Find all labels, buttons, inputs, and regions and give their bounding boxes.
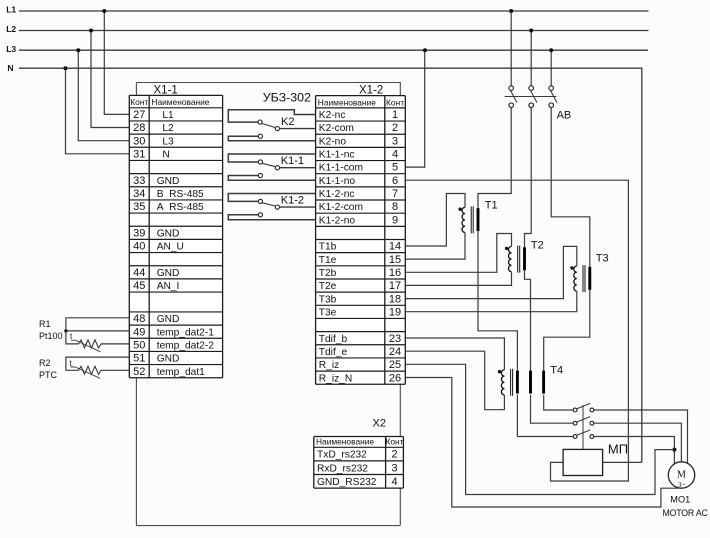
wire X1-1 pin48 to R1 node: [66, 318, 130, 331]
wire L3 rail to breaker pole: [550, 50, 552, 86]
resistor R1 Pt100 element: [79, 340, 102, 348]
svg-text:2: 2: [392, 122, 398, 134]
wire rail L1: [19, 10, 649, 12]
svg-text:Наименование: Наименование: [151, 97, 209, 107]
svg-text:23: 23: [389, 333, 401, 345]
svg-text:GND: GND: [157, 314, 180, 325]
contactor MP contact 2 left: [573, 421, 577, 425]
transformer T4 primary bar 1: [516, 371, 519, 394]
svg-text:39: 39: [133, 227, 145, 239]
svg-text:MOTOR AC: MOTOR AC: [663, 508, 709, 518]
wire L3 T3 bar to T4 bar3: [544, 290, 590, 371]
svg-text:L2: L2: [6, 24, 16, 34]
svg-text:3: 3: [391, 462, 397, 474]
transformer T2 polarity dot: [505, 247, 508, 250]
breaker AB pole L2 bottom: [529, 103, 534, 108]
svg-text:51: 51: [133, 353, 145, 365]
breaker AB pole L3 bottom: [549, 103, 554, 108]
wire L1 tap to X1-1 pin 27: [104, 11, 130, 114]
table X2 backing: [314, 437, 404, 489]
svg-text:34: 34: [133, 188, 145, 200]
wire MP contact3 to motor: [594, 437, 675, 465]
svg-text:K1-1: K1-1: [281, 155, 304, 167]
svg-text:T2e: T2e: [319, 281, 337, 292]
svg-text:GND_RS232: GND_RS232: [317, 477, 377, 488]
svg-text:18: 18: [389, 293, 401, 305]
wire K1-2 com to pin 8: [279, 206, 315, 208]
wire rail N down right side to MP coil: [19, 68, 642, 462]
svg-text:31: 31: [133, 148, 145, 160]
contactor MP contact 2 right: [590, 421, 594, 425]
contact K1-2 moving pivot: [258, 199, 262, 203]
wire T2e pin17 to T2 winding end: [405, 272, 511, 286]
svg-text:30: 30: [133, 135, 145, 147]
wire L1 breaker to T1 bar: [478, 108, 511, 209]
transformer T4 primary bar 3: [542, 371, 545, 394]
svg-text:temp_dat2-2: temp_dat2-2: [157, 340, 215, 351]
contact K1-1 no contact: [258, 173, 262, 177]
svg-text:28: 28: [133, 122, 145, 134]
wire rail L2: [19, 30, 649, 32]
svg-text:Наименование: Наименование: [316, 437, 374, 447]
svg-text:N: N: [7, 63, 13, 73]
transformer T3 winding: [574, 266, 577, 291]
wire pin6 K1-1-no to MP coil left: [405, 180, 628, 481]
wire T3e pin19 to T3 winding end: [405, 291, 577, 312]
svg-text:N: N: [157, 149, 170, 160]
wire L1 T4 bar1 to MP contact 3: [517, 395, 573, 437]
svg-text:Наименование: Наименование: [318, 97, 376, 107]
svg-text:7: 7: [392, 188, 398, 200]
breaker AB pole L2 blade: [531, 91, 537, 103]
svg-text:44: 44: [133, 267, 145, 279]
svg-text:Tdif_e: Tdif_e: [319, 347, 348, 358]
contact K2 nc lead: [228, 110, 315, 122]
svg-text:K1-1-com: K1-1-com: [319, 163, 363, 174]
wire L2 T4 bar2 to MP contact 2: [531, 395, 574, 423]
svg-text:K2-com: K2-com: [319, 123, 354, 134]
transformer T2 winding: [508, 247, 511, 272]
transformer T3 polarity dot: [570, 266, 573, 269]
breaker AB pole L3 blade: [551, 91, 557, 103]
svg-text:R_iz_N: R_iz_N: [319, 373, 352, 384]
node L2 tap junction: [89, 29, 93, 33]
node N tap junction: [64, 66, 68, 70]
transformer T4 winding: [501, 370, 504, 395]
contactor MP contact 1 arm: [577, 403, 591, 409]
resistor R2 PTC element: [79, 366, 102, 374]
svg-text:T2b: T2b: [319, 268, 337, 279]
svg-text:temp_dat1: temp_dat1: [157, 367, 205, 378]
motor MO1 circle: [668, 462, 694, 488]
svg-text:МП: МП: [608, 442, 628, 457]
svg-text:X1-2: X1-2: [359, 85, 383, 97]
svg-text:2: 2: [391, 449, 397, 461]
wire MP coil right to N: [603, 461, 642, 463]
contact K1-1 com pivot: [275, 166, 279, 170]
svg-text:6: 6: [392, 175, 398, 187]
contactor MP coil: [563, 449, 603, 475]
svg-text:temp_dat2-1: temp_dat2-1: [157, 327, 215, 338]
transformer T1 core: [471, 206, 473, 233]
svg-text:26: 26: [389, 372, 401, 384]
svg-text:L3: L3: [157, 136, 174, 147]
breaker AB pole L3 top: [549, 86, 554, 91]
svg-text:L1: L1: [157, 110, 174, 121]
wire L2 rail to breaker pole: [530, 31, 532, 86]
contact K2 arm: [262, 123, 276, 127]
svg-text:X2: X2: [373, 418, 386, 430]
svg-text:K1-2-com: K1-2-com: [319, 202, 363, 213]
transformer T2 core: [518, 246, 520, 273]
contactor MP linkage: [582, 405, 584, 449]
svg-text:PTC: PTC: [39, 370, 58, 380]
svg-text:8: 8: [392, 201, 398, 213]
contactor MP contact 1 right: [590, 408, 594, 412]
node L1 tap junction: [102, 9, 106, 13]
thermal strike R1: [71, 340, 101, 352]
device outline box UBZ-302: [136, 83, 400, 526]
svg-text:T3b: T3b: [319, 294, 337, 305]
svg-text:AN_U: AN_U: [157, 242, 184, 253]
wire MP contact1 to motor: [594, 410, 688, 463]
node motor phase tap: [672, 448, 676, 452]
table X1-1 backing: [129, 95, 222, 377]
svg-text:1: 1: [392, 109, 398, 121]
wire T2b pin16 to T2 winding start: [405, 234, 511, 273]
svg-text:4: 4: [391, 476, 397, 488]
wire R1 to X1-1 pin 50: [101, 343, 130, 345]
node L3 breaker tap: [549, 48, 553, 52]
svg-text:5: 5: [392, 162, 398, 174]
svg-text:4: 4: [392, 149, 398, 161]
svg-text:GND: GND: [157, 228, 180, 239]
svg-text:K1-2-nc: K1-2-nc: [319, 189, 355, 200]
contact K1-2 arm: [262, 203, 276, 206]
contact K1-2 com pivot: [275, 205, 279, 209]
wire K1-1 com to pin 5: [279, 167, 315, 169]
breaker AB crossbar: [505, 96, 557, 98]
svg-text:L2: L2: [157, 123, 174, 134]
table X1-2 backing: [316, 96, 406, 385]
wire X1-1 pin49 to R1 node: [66, 330, 130, 332]
wire T3b pin18 to T3 winding start: [405, 246, 577, 298]
svg-text:25: 25: [389, 359, 401, 371]
contact K1-2 no contact: [258, 213, 262, 217]
wire MP contact2 to motor: [594, 423, 682, 462]
transformer T4 polarity dot: [498, 370, 501, 373]
svg-text:17: 17: [389, 280, 401, 292]
wire L1 rail to breaker pole: [510, 11, 512, 86]
svg-text:GND: GND: [157, 354, 180, 365]
contactor MP contact 3 right: [590, 435, 594, 439]
node R1 junction: [64, 329, 67, 332]
svg-text:K1-2: K1-2: [281, 194, 304, 206]
svg-text:K2-nc: K2-nc: [319, 110, 346, 121]
svg-text:50: 50: [133, 339, 145, 351]
breaker AB pole L1 blade: [511, 91, 517, 103]
svg-text:3: 3: [392, 135, 398, 147]
transformer T4 primary bar 2: [529, 371, 532, 394]
svg-text:AN_I: AN_I: [157, 281, 180, 292]
contact K2 com pivot: [275, 127, 279, 131]
svg-text:t: t: [70, 332, 73, 341]
contactor MP contact 3 arm: [577, 430, 591, 436]
svg-text:27: 27: [133, 109, 145, 121]
svg-text:B RS-485: B RS-485: [157, 189, 204, 200]
svg-text:35: 35: [133, 201, 145, 213]
svg-text:9: 9: [392, 214, 398, 226]
wire L3 tap to X1-1 pin 30: [78, 50, 130, 141]
svg-text:УБЗ-302: УБЗ-302: [263, 91, 311, 105]
thermal strike R2: [71, 367, 101, 378]
contact K2 moving pivot: [258, 120, 262, 124]
svg-text:3~: 3~: [678, 480, 686, 489]
wire R1 node down to sensor: [66, 331, 79, 344]
svg-text:K1-2-no: K1-2-no: [319, 215, 356, 226]
wire K2 com to pin 2: [279, 128, 315, 130]
node L1 breaker tap: [509, 9, 513, 13]
svg-text:X1-1: X1-1: [154, 85, 178, 97]
node L3 K1-1-com junction: [423, 48, 427, 52]
contact K1-1 no lead: [228, 176, 315, 181]
svg-text:T2: T2: [531, 240, 544, 252]
svg-text:Конт: Конт: [386, 437, 404, 447]
svg-text:R1: R1: [39, 319, 51, 329]
transformer T3 core: [583, 265, 585, 292]
svg-text:T3: T3: [596, 253, 609, 265]
svg-text:T1: T1: [485, 199, 498, 211]
wire L3 breaker to T3 bar: [551, 108, 590, 268]
svg-text:Конт: Конт: [386, 97, 404, 107]
wire X1-1 pin51 to R2: [66, 357, 130, 370]
transformer T4 core: [511, 369, 513, 396]
transformer T2 primary bar 1: [523, 247, 526, 270]
svg-text:16: 16: [389, 267, 401, 279]
contact K2 no contact: [258, 134, 262, 138]
wire Tdif_b pin23 to T4 winding start: [405, 338, 504, 370]
svg-text:GND: GND: [157, 176, 180, 187]
wire L3 T4 bar3 to MP contact 1: [544, 395, 573, 410]
wire R_iz pin25 to motor phase tap: [405, 364, 674, 494]
svg-text:33: 33: [133, 175, 145, 187]
svg-text:48: 48: [133, 313, 145, 325]
svg-text:49: 49: [133, 326, 145, 338]
wire pin5 K1-1-com up to L3: [405, 50, 424, 167]
breaker AB pole L2 top: [529, 86, 534, 91]
wire L1 T1 bar to T4 bar1: [478, 231, 517, 371]
svg-text:24: 24: [389, 346, 401, 358]
node L2 breaker tap: [529, 29, 533, 33]
svg-text:R_iz: R_iz: [319, 360, 339, 371]
contact K2 no lead: [228, 136, 315, 141]
svg-text:K1-1-no: K1-1-no: [319, 176, 356, 187]
wire T1e pin15 to T1 winding end: [405, 233, 465, 260]
svg-text:L1: L1: [6, 5, 16, 15]
svg-text:52: 52: [133, 366, 145, 378]
transformer T1 primary bar 1: [477, 208, 480, 231]
svg-text:TxD_rs232: TxD_rs232: [317, 450, 367, 461]
wire rail L3: [19, 49, 648, 51]
svg-text:R2: R2: [39, 358, 51, 368]
svg-text:T4: T4: [550, 364, 563, 376]
svg-text:t: t: [70, 359, 73, 368]
breaker AB pole L1 bottom: [509, 103, 514, 108]
svg-text:19: 19: [389, 306, 401, 318]
node L3 tap junction: [76, 48, 80, 52]
svg-text:40: 40: [133, 241, 145, 253]
svg-text:Конт: Конт: [130, 97, 148, 107]
wire L2 tap to X1-1 pin 28: [91, 31, 130, 128]
svg-text:Pt100: Pt100: [39, 331, 63, 341]
svg-text:15: 15: [389, 254, 401, 266]
wire Tdif_e pin24 to T4 winding end: [405, 351, 504, 410]
svg-text:14: 14: [389, 241, 401, 253]
svg-text:АВ: АВ: [557, 110, 572, 122]
svg-text:T3e: T3e: [319, 307, 337, 318]
svg-text:GND: GND: [157, 268, 180, 279]
wire N tap to X1-1 pin 31: [66, 68, 130, 154]
transformer T1 polarity dot: [458, 208, 461, 211]
breaker AB pole L1 top: [509, 86, 514, 91]
svg-text:T1b: T1b: [319, 242, 337, 253]
contactor MP contact 3 left: [573, 435, 577, 439]
wire L2 breaker to T2 bar: [525, 108, 532, 248]
contactor MP contact 2 arm: [577, 417, 591, 423]
svg-text:MO1: MO1: [670, 495, 690, 505]
contactor MP contact 1 left: [573, 408, 577, 412]
svg-text:Tdif_b: Tdif_b: [319, 334, 348, 345]
svg-text:45: 45: [133, 280, 145, 292]
contact K1-1 moving pivot: [258, 160, 262, 164]
contact K1-2 no lead: [228, 215, 315, 220]
contact K1-1 nc lead: [228, 154, 315, 162]
svg-text:T1e: T1e: [319, 255, 337, 266]
contact K1-2 nc lead: [228, 193, 315, 201]
wire L2 T2 bar to T4 bar2: [525, 270, 531, 370]
wire R2 to X1-1 pin 52: [101, 369, 130, 371]
svg-text:K2: K2: [281, 116, 294, 128]
svg-text:L3: L3: [6, 44, 16, 54]
transformer T3 primary bar 1: [588, 267, 591, 290]
wire T1b pin14 to T1 winding start: [405, 194, 465, 247]
contact K1-1 arm: [262, 163, 276, 166]
wire R_iz_N pin26 to motor star point: [405, 378, 679, 508]
transformer T1 winding: [462, 207, 465, 232]
svg-text:K1-1-nc: K1-1-nc: [319, 150, 355, 161]
svg-text:RxD_rs232: RxD_rs232: [317, 463, 368, 474]
svg-text:K2-no: K2-no: [319, 136, 347, 147]
svg-text:A RS-485: A RS-485: [157, 202, 204, 213]
